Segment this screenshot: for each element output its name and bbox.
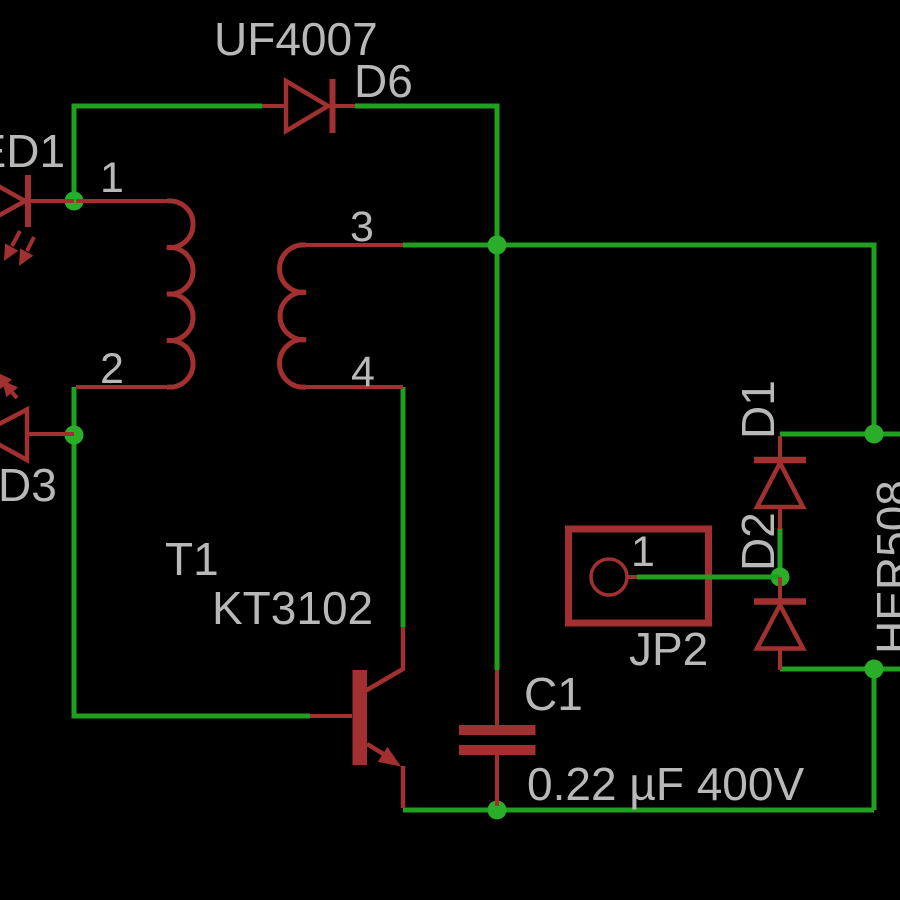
LED D3 arrow heads	[0, 372, 18, 397]
capacitor C1	[495, 670, 499, 806]
wire D1 cathode lead to D1-D2 node	[778, 528, 783, 577]
node right rail top junction	[865, 425, 884, 444]
diode D6	[262, 79, 355, 133]
svg-text:KT3102: KT3102	[212, 582, 373, 634]
diode D2	[754, 577, 806, 670]
svg-text:D6: D6	[354, 55, 413, 107]
connector JP2 pin circle	[591, 559, 627, 595]
wire winding pin 3 to middle rail	[403, 243, 497, 248]
node D3 junction	[65, 426, 84, 445]
capacitor C1 plates	[459, 725, 536, 755]
svg-text:HER508: HER508	[867, 480, 900, 654]
transformer T1 winding 1	[76, 201, 193, 387]
wire right rail lower segment	[872, 669, 877, 810]
node middle rail junction	[488, 236, 507, 255]
svg-text:3: 3	[350, 203, 374, 251]
svg-text:D2: D2	[732, 512, 784, 571]
node LED1 anode junction	[65, 192, 84, 211]
transistor Q1 emitter	[367, 744, 403, 808]
transistor Q1 base bar	[353, 670, 368, 765]
svg-text:0.22 µF 400V: 0.22 µF 400V	[527, 758, 804, 810]
transistor Q1 base lead	[310, 714, 352, 718]
node C1 bottom junction	[488, 801, 507, 820]
svg-text:2: 2	[100, 345, 124, 393]
transistor Q1 emitter arrow head	[378, 747, 401, 767]
wire left rail from pin 2 down to transistor base	[74, 387, 310, 716]
wire D1 top to right rail and edge	[780, 432, 900, 437]
connector JP2 pin stub	[627, 575, 637, 579]
wire JP2 pin to D1-D2 node	[637, 575, 780, 580]
LED LED1 arrow heads	[4, 243, 33, 266]
wire winding pin 4 down to transistor collector	[401, 387, 406, 627]
wire top net from LED1 node to D6 anode	[74, 106, 262, 203]
node right rail bottom junction	[865, 660, 884, 679]
LED D3	[0, 384, 74, 460]
svg-text:D3: D3	[0, 459, 57, 511]
svg-text:JP2: JP2	[629, 623, 708, 675]
svg-text:T1: T1	[165, 533, 219, 585]
svg-text:C1: C1	[524, 668, 583, 720]
diode D1	[754, 436, 806, 529]
transformer T1 winding 2	[280, 245, 403, 387]
svg-text:1: 1	[100, 154, 124, 202]
svg-text:D1: D1	[732, 380, 784, 439]
LED LED1	[0, 175, 74, 251]
transistor Q1 collector	[366, 627, 403, 691]
connector JP2 box	[569, 529, 709, 623]
svg-text:4: 4	[351, 348, 375, 396]
wire D6 cathode to middle rail and down	[355, 106, 497, 670]
wire bottom net emitter to right rail	[403, 808, 874, 813]
svg-text:1: 1	[631, 528, 655, 576]
svg-text:LED1: LED1	[0, 125, 65, 177]
wire D2 anode to right rail and edge	[780, 667, 900, 672]
node D1-D2 junction	[771, 568, 790, 587]
wire middle rail junction to right rail top	[497, 245, 874, 434]
